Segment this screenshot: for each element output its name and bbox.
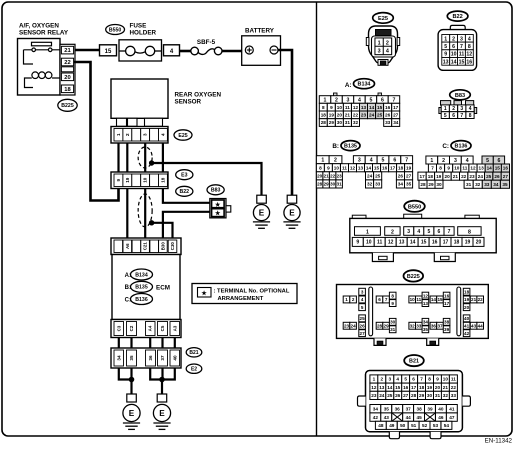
svg-text:16: 16 [432,240,438,246]
svg-text:B550: B550 [408,204,421,210]
svg-text:12: 12 [353,105,359,110]
svg-text:11: 11 [451,377,456,382]
connector label E2 [186,364,202,373]
svg-text:15: 15 [395,385,401,390]
svg-text:32: 32 [410,324,416,329]
svg-text:16: 16 [444,293,450,298]
svg-text:15: 15 [377,105,383,110]
svg-text:26: 26 [395,393,401,398]
svg-text:C21: C21 [143,242,148,251]
svg-text:30: 30 [330,182,336,187]
wire ECM C3 to E2 34 [118,338,120,349]
svg-text:25: 25 [377,113,383,118]
svg-text:15: 15 [437,297,443,302]
relay terminal block pins 21 22 20 18 [60,44,75,95]
svg-text:8: 8 [391,293,394,298]
svg-text:40: 40 [438,406,444,411]
svg-text:10: 10 [337,105,343,110]
svg-text:32: 32 [443,393,449,398]
svg-text:38: 38 [444,320,450,325]
svg-text:53: 53 [433,423,439,428]
svg-text:32: 32 [353,120,359,125]
svg-text:4: 4 [469,106,472,112]
svg-text:8: 8 [468,44,471,50]
svg-text:46: 46 [438,415,444,420]
svg-text:15: 15 [105,49,112,55]
svg-text:1: 1 [444,36,447,42]
svg-text:28: 28 [377,324,383,329]
shield junction dot upper [149,160,154,165]
svg-text:10: 10 [334,165,340,170]
svg-text:8: 8 [468,229,471,235]
svg-text:B225: B225 [407,274,420,280]
svg-text:13: 13 [379,385,385,390]
svg-text:37: 37 [160,355,165,361]
svg-text:4: 4 [160,133,165,136]
svg-text:20: 20 [337,113,343,118]
svg-text:13: 13 [399,240,405,246]
ECM bottom pin row C3 C2 A4 C5 A3 [111,320,181,338]
svg-text:23: 23 [371,393,377,398]
svg-text:12: 12 [466,52,472,58]
svg-text:28: 28 [317,182,323,187]
svg-text:34: 34 [398,182,404,187]
svg-text:C3: C3 [116,325,121,331]
svg-text:4: 4 [468,36,471,42]
battery [242,28,281,66]
svg-text:27: 27 [393,113,399,118]
svg-text:3: 3 [347,97,350,103]
wire ECM A3 to E2 40 [174,338,176,349]
svg-text:E3: E3 [181,173,187,179]
svg-text:12: 12 [371,385,377,390]
svg-text:12: 12 [423,293,429,298]
svg-text:32: 32 [475,182,481,187]
svg-text:30: 30 [427,393,433,398]
svg-text:30: 30 [436,182,442,187]
svg-text:3: 3 [378,49,381,55]
svg-text:28: 28 [411,393,417,398]
svg-text:7: 7 [448,229,451,235]
svg-text:18: 18 [454,240,460,246]
svg-text:3: 3 [388,377,391,382]
connector B21 / E2 pin row pins 34 35 36 37 40 [111,348,181,368]
svg-text:5: 5 [361,305,364,310]
ground junction dot right [159,377,165,383]
svg-text:41: 41 [464,324,470,329]
svg-text:37: 37 [406,406,412,411]
svg-text:33: 33 [484,182,490,187]
fuse SBF-5 [191,39,222,55]
svg-text:E2: E2 [191,367,197,373]
svg-text:17: 17 [393,105,399,110]
svg-text:20: 20 [435,385,441,390]
svg-text:B83: B83 [211,188,221,194]
svg-text:14: 14 [369,105,375,110]
svg-text:A6: A6 [125,243,130,249]
ground E lower-right [153,394,170,429]
svg-text:★: ★ [200,290,207,297]
svg-text:A/F, OXYGEN: A/F, OXYGEN [19,23,59,30]
svg-text:31: 31 [390,327,396,332]
svg-text:15: 15 [421,240,427,246]
ground E shield drain [253,195,270,228]
svg-text:A3: A3 [172,325,177,331]
svg-text:2: 2 [386,40,389,46]
svg-text:7: 7 [385,297,388,302]
svg-text:BATTERY: BATTERY [245,28,275,35]
svg-text:29: 29 [428,182,434,187]
svg-text:17: 17 [443,240,449,246]
svg-text:3: 3 [460,36,463,42]
svg-text:★: ★ [214,210,221,217]
svg-text:27: 27 [403,393,409,398]
svg-text:31: 31 [435,393,441,398]
svg-text:1: 1 [366,229,369,235]
svg-text:13: 13 [361,105,367,110]
svg-text:9: 9 [447,166,450,171]
svg-text:12: 12 [388,240,394,246]
svg-text:44: 44 [478,324,484,329]
connector label B83 [207,185,224,195]
svg-text:18: 18 [398,165,404,170]
connector label B22 [176,186,193,196]
svg-text:B21: B21 [189,350,198,356]
connector E25 pin row pins 1 2 3 4 [111,127,168,144]
svg-text:SENSOR: SENSOR [175,99,202,106]
svg-text:34: 34 [393,120,399,125]
svg-text:4: 4 [386,49,389,55]
svg-text:31: 31 [466,182,472,187]
wire E25-2 to E3 [126,143,128,172]
svg-text:7: 7 [392,97,395,103]
svg-text:19: 19 [436,174,442,179]
svg-text:13: 13 [478,166,484,171]
svg-text:10: 10 [443,377,449,382]
svg-text:44: 44 [406,415,412,420]
svg-text:26: 26 [385,113,391,118]
connector label E25 (pinout) [373,13,394,24]
svg-text:22: 22 [461,174,467,179]
svg-text:HOLDER: HOLDER [130,30,157,37]
connector label A: B134 [345,79,375,89]
svg-text:18: 18 [321,113,327,118]
svg-text:27: 27 [406,174,412,179]
svg-text:11: 11 [377,240,383,246]
svg-text:26: 26 [360,324,366,329]
svg-text:SBF-5: SBF-5 [197,39,216,46]
svg-text:E: E [159,409,165,418]
svg-text:11: 11 [345,105,350,110]
svg-text:36: 36 [395,406,401,411]
wire ECM C2 to E2 35 [130,338,132,349]
svg-text:3: 3 [361,290,364,295]
cable shield upper [138,147,152,168]
ground E lower-left [123,394,140,429]
svg-text:31: 31 [345,120,351,125]
svg-text:33: 33 [385,120,391,125]
svg-text:36: 36 [431,324,437,329]
svg-text:14: 14 [387,385,393,390]
svg-text:8: 8 [428,377,431,382]
svg-text:2: 2 [335,97,338,103]
svg-text:50: 50 [400,423,406,428]
svg-text:18: 18 [428,174,434,179]
connector B135 pinout grid [316,156,412,188]
svg-text:24: 24 [379,393,385,398]
fuse holder body SBF [119,40,162,61]
svg-text:3: 3 [454,158,457,164]
svg-text:1: 1 [444,106,447,112]
svg-text:8: 8 [469,113,472,119]
svg-text:6: 6 [412,377,415,382]
svg-text:28: 28 [420,182,426,187]
svg-text:34: 34 [116,355,121,361]
svg-text:A4: A4 [148,325,153,331]
connector label B225 [58,99,77,111]
svg-text:B550: B550 [109,27,122,33]
svg-text:34: 34 [423,320,429,325]
svg-text:4: 4 [417,229,420,235]
relay B225 A/F oxygen sensor relay [18,23,69,96]
svg-text:ECM: ECM [156,284,170,291]
svg-text:4: 4 [358,97,361,103]
panel divider line [316,2,318,436]
connector label B21 (pinout) [404,355,424,366]
svg-text:7: 7 [405,158,408,164]
svg-text:21: 21 [345,113,351,118]
svg-text:9: 9 [444,52,447,58]
svg-text:9: 9 [327,165,330,170]
svg-text:14: 14 [431,297,437,302]
svg-text:2: 2 [452,36,455,42]
svg-text:1: 1 [430,158,433,164]
svg-text:9: 9 [356,240,359,246]
svg-text:6: 6 [452,44,455,50]
svg-text:3: 3 [407,229,410,235]
svg-text:54: 54 [444,423,450,428]
svg-text:5: 5 [486,158,489,164]
wire ECM C5 to E2 37 [161,338,163,349]
svg-text:4: 4 [361,297,364,302]
svg-text:39: 39 [427,406,433,411]
svg-text:30: 30 [390,320,396,325]
ground junction dot left [129,377,135,383]
svg-text:B134: B134 [135,272,148,278]
svg-text:20: 20 [464,305,470,310]
svg-text:35: 35 [384,406,390,411]
svg-text:9: 9 [436,377,439,382]
svg-text:2: 2 [352,297,355,302]
svg-text:24: 24 [351,324,357,329]
shield drain wire to ground [152,163,262,195]
svg-text:15: 15 [495,166,501,171]
svg-text:6: 6 [393,158,396,164]
svg-text:19: 19 [406,165,412,170]
svg-text:16: 16 [382,165,388,170]
svg-text:48: 48 [378,423,384,428]
shielded wire B22-10 to ECM C21 [144,189,146,239]
svg-text:E25: E25 [178,133,187,139]
svg-text:2: 2 [125,133,130,136]
ECM top pin row A6 C21 B30 C30 [111,238,181,255]
svg-text:1: 1 [321,158,324,164]
svg-text:4: 4 [466,158,469,164]
shielded wire E25-3 to E3 [144,143,146,172]
svg-text:21: 21 [443,385,449,390]
svg-text:11: 11 [416,297,421,302]
svg-text:14: 14 [366,165,372,170]
wire ECM A4 to E2 36 [149,338,151,349]
svg-text:24: 24 [367,174,373,179]
fuse holder pin 15 [100,45,117,56]
svg-text:34: 34 [373,406,379,411]
svg-text:41: 41 [449,406,455,411]
svg-text:40: 40 [172,355,177,361]
svg-text:: TERMINAL No. OPTIONAL: : TERMINAL No. OPTIONAL [214,289,290,295]
svg-text:10: 10 [143,177,148,183]
svg-text:43: 43 [471,324,477,329]
svg-text:2: 2 [380,377,383,382]
svg-text:C30: C30 [170,242,175,251]
svg-text:37: 37 [437,324,443,329]
svg-text:27: 27 [360,331,366,336]
svg-text:7: 7 [460,113,463,119]
svg-text:20: 20 [64,75,70,81]
svg-text:22: 22 [451,385,457,390]
svg-text:9: 9 [330,105,333,110]
wire 36 to ground joint [150,368,162,380]
svg-text:7: 7 [431,166,434,171]
svg-text:52: 52 [422,423,428,428]
svg-text:20: 20 [317,174,323,179]
svg-text:14: 14 [451,59,457,65]
svg-text:15: 15 [459,59,465,65]
connector label E25 [174,130,192,140]
svg-text:23: 23 [344,324,350,329]
wire 37 to ground [161,368,163,380]
svg-text:B22: B22 [452,14,462,20]
svg-text:14: 14 [410,240,416,246]
svg-text:16: 16 [403,385,409,390]
svg-text:38: 38 [416,406,422,411]
svg-text:29: 29 [419,393,425,398]
svg-text:16: 16 [466,59,472,65]
wire pin 4 to fuse SBF-5 [180,50,192,53]
svg-text:12: 12 [470,166,476,171]
svg-text:C:: C: [442,143,449,150]
wire 40 to ground joint [162,368,175,380]
svg-text:10: 10 [410,297,416,302]
svg-text:49: 49 [389,423,395,428]
svg-text:★: ★ [214,201,221,208]
svg-text:22: 22 [330,174,336,179]
svg-text:3: 3 [460,106,463,112]
svg-text:B135: B135 [344,144,357,150]
svg-text:12: 12 [350,165,356,170]
svg-text:C5: C5 [160,325,165,331]
svg-text:16: 16 [503,166,509,171]
connector label E3 [176,170,193,180]
svg-text:C2: C2 [129,325,134,331]
svg-text:10: 10 [451,52,457,58]
svg-text:16: 16 [385,105,391,110]
svg-text:33: 33 [451,393,457,398]
svg-text:REAR OXYGEN: REAR OXYGEN [175,92,222,99]
svg-text:17: 17 [390,165,396,170]
fuse holder label B550 [106,23,157,37]
connector B21 pinout body [358,371,471,439]
svg-text:39: 39 [444,327,450,332]
svg-text:51: 51 [411,423,417,428]
svg-text:22: 22 [353,113,359,118]
svg-text:4: 4 [370,158,373,164]
connector label B225 (pinout) [404,270,424,281]
svg-text:8: 8 [439,166,442,171]
svg-text:33: 33 [416,324,422,329]
connector B134 pinout grid [319,93,399,126]
svg-text:21: 21 [471,297,477,302]
svg-text:6: 6 [497,158,500,164]
svg-text:6: 6 [452,113,455,119]
svg-text:27: 27 [503,174,509,179]
svg-text:42: 42 [464,331,470,336]
wire B22-19 to ECM A6 [126,189,128,239]
svg-text:B136: B136 [135,297,148,303]
svg-text:B30: B30 [160,242,165,251]
svg-text:8: 8 [322,105,325,110]
ECM box with connectors A:B134 B:B135 C:B136 [112,255,180,320]
svg-text:19: 19 [465,240,471,246]
shield junction dot lower [149,220,154,225]
connector E25 pinout body [366,26,399,65]
svg-text:B22: B22 [180,189,190,195]
svg-text:30: 30 [337,120,343,125]
svg-text:40: 40 [464,316,470,321]
svg-text:3: 3 [143,133,148,136]
svg-text:25: 25 [375,174,381,179]
connector label B550 (pinout) [404,201,425,212]
svg-text:25: 25 [486,174,492,179]
svg-text:29: 29 [324,182,330,187]
svg-text:1: 1 [345,297,348,302]
svg-text:B:: B: [332,143,339,150]
svg-text:FUSE: FUSE [130,23,147,30]
wire B22-18 to joint connector B83 [163,189,210,203]
svg-text:5: 5 [382,158,385,164]
svg-text:1: 1 [324,97,327,103]
connector label B21 [186,348,202,357]
svg-text:45: 45 [416,415,422,420]
wire relay pin 21 to fuse pin 15 [75,49,100,52]
svg-text:24: 24 [478,174,484,179]
rear oxygen sensor [111,79,221,126]
svg-text:28: 28 [321,120,327,125]
svg-text:1: 1 [373,377,376,382]
svg-text:7: 7 [460,44,463,50]
wire E25-4 to E3 [162,143,164,172]
svg-text:13: 13 [358,165,364,170]
svg-text:32: 32 [367,182,373,187]
svg-text:8: 8 [319,165,322,170]
connector B136 pinout grid [418,156,510,188]
svg-text:5: 5 [444,44,447,50]
svg-text:29: 29 [329,120,335,125]
shield drain wire to ECM C30 [152,223,173,238]
svg-text:47: 47 [449,415,455,420]
wire E25-1 to E3 [117,143,119,172]
svg-text:34: 34 [493,182,499,187]
